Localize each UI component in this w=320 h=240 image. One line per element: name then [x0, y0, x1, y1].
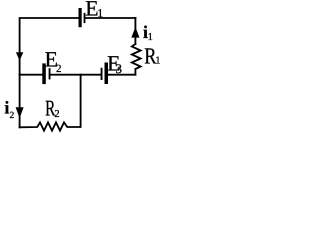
svg-text:3: 3: [116, 61, 123, 76]
svg-text:1: 1: [97, 6, 103, 20]
svg-text:1: 1: [155, 55, 160, 66]
svg-text:2: 2: [56, 63, 62, 75]
svg-text:1: 1: [148, 32, 153, 43]
svg-text:2: 2: [54, 109, 59, 120]
svg-text:2: 2: [10, 111, 15, 121]
